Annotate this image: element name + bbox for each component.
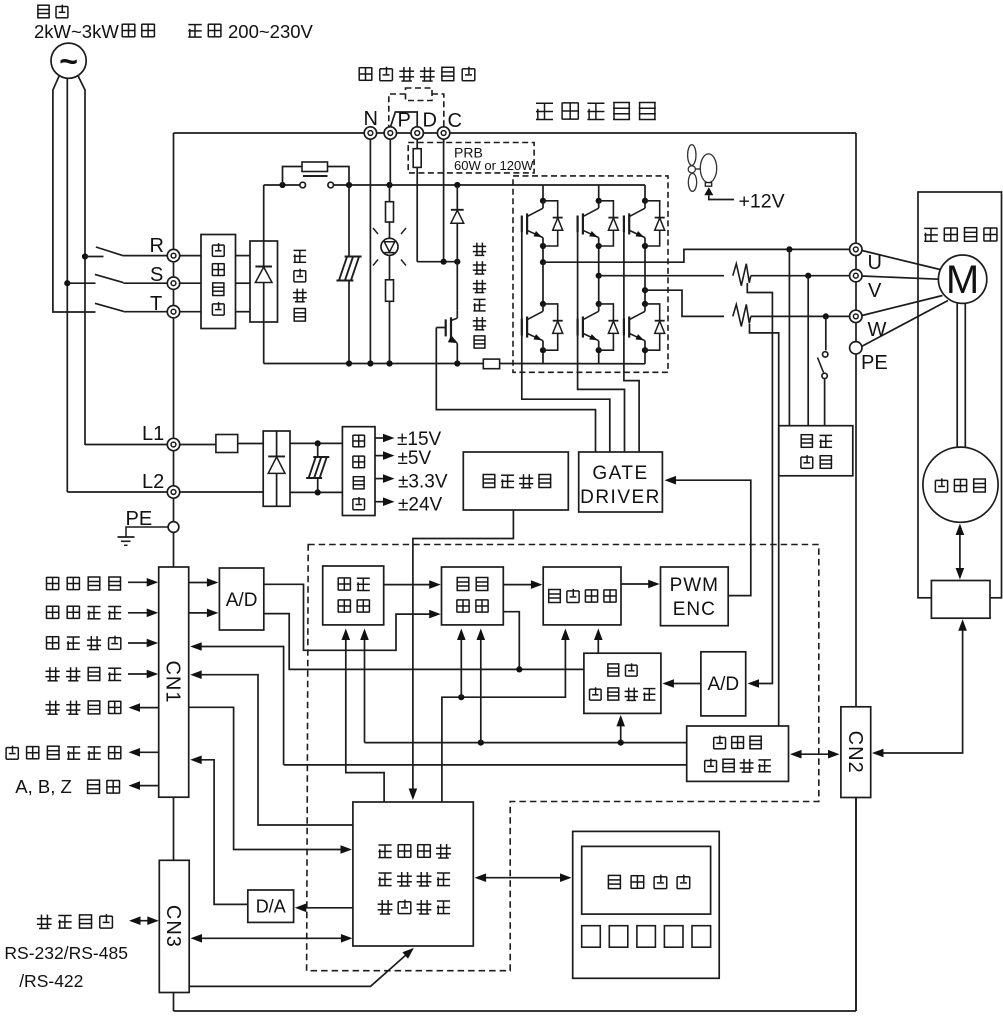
AC source G1	[51, 43, 86, 79]
label R	[150, 235, 164, 257]
servo drive enclosure box	[174, 133, 857, 1011]
gate driver block	[579, 452, 663, 512]
label 回生处理回路	[473, 243, 486, 349]
svg-text:R: R	[150, 235, 164, 257]
wire D-C junction link	[417, 259, 460, 265]
arrow interface processor to display	[475, 873, 572, 882]
wire V to dynamic brake	[807, 276, 809, 426]
label L1	[142, 423, 164, 445]
arrow +-3.3V	[375, 472, 448, 493]
control power supply 控制电源	[342, 427, 375, 516]
svg-text:+12V: +12V	[739, 191, 785, 213]
dynamic brake block 动态刹车	[779, 426, 853, 476]
IGBT leg V feeders	[596, 185, 602, 364]
arrow feedback to position control B	[360, 629, 369, 743]
wire V current-sense tap to A/D	[747, 283, 772, 688]
arrow current signal to current control	[594, 629, 603, 654]
arrow 外部扭矩 to CN1	[128, 609, 158, 618]
terminal U	[850, 243, 862, 255]
charge lamp LED	[373, 228, 406, 266]
label 串行通讯	[37, 914, 113, 928]
cooling fan icon	[688, 145, 717, 196]
arrow speed to current control	[503, 580, 542, 589]
label N	[364, 108, 378, 130]
shunt resistor on negative bus	[483, 359, 499, 369]
jumper link P-D	[391, 112, 418, 127]
wire R to phase-loss detector	[180, 255, 201, 257]
wire D/A to CN1	[190, 756, 248, 905]
regen diode	[451, 185, 464, 311]
wire regen gate to gate driver	[436, 328, 595, 453]
arrow 数字输入 to CN1	[128, 670, 158, 679]
terminal S	[167, 277, 179, 289]
D/A converter block	[248, 890, 294, 922]
terminal N	[364, 127, 376, 139]
switch SW-S	[64, 274, 167, 286]
wire gate V to gate driver	[578, 232, 625, 452]
label PE motor	[861, 352, 888, 374]
svg-text:60W or 120W: 60W or 120W	[454, 158, 534, 173]
wire phase3 to L1	[85, 444, 167, 446]
reactor III symbol control	[306, 443, 329, 492]
wire control rectifier outputs	[290, 440, 342, 495]
label P	[398, 110, 411, 132]
label three-phase 200~230V	[188, 21, 313, 42]
wires phase-loss detector to rectifier	[236, 256, 251, 312]
svg-text:CN1: CN1	[162, 660, 184, 703]
label PE	[126, 508, 153, 530]
arrow +-5V	[375, 448, 431, 469]
arrow feed to speed control B	[457, 629, 466, 698]
wire V to motor	[862, 276, 938, 279]
svg-text:GATE: GATE	[592, 463, 648, 484]
switch SW-T	[95, 303, 167, 311]
transistor Q6 lower W	[624, 304, 665, 350]
label 伺服电机	[924, 228, 997, 242]
label U	[868, 252, 882, 274]
wire L1 to fuse	[180, 444, 216, 446]
wire phase V output	[599, 264, 850, 286]
terminal P	[384, 127, 396, 139]
svg-text:T: T	[150, 293, 162, 315]
wire speed feedback line	[365, 740, 687, 746]
arrow current control to PWM	[621, 580, 660, 589]
wire T to phase-loss detector	[180, 311, 201, 313]
svg-text:~: ~	[59, 43, 78, 79]
wire fuse to control rectifier	[238, 443, 264, 445]
display key 5	[692, 926, 711, 948]
svg-text:ENC: ENC	[673, 599, 716, 620]
label L2	[142, 471, 164, 493]
label S	[150, 264, 163, 286]
resistor on D line	[413, 139, 421, 261]
wire A/D outB feed	[264, 614, 584, 670]
arrow CN1 to 模拟输入监控	[129, 748, 159, 757]
svg-text:±24V: ±24V	[398, 495, 443, 516]
operator display unit 操作显示	[573, 831, 720, 978]
label 模拟输入监控	[6, 746, 121, 760]
transistor Q1 upper U	[522, 201, 563, 246]
arrow 外部速度 to CN1	[128, 578, 158, 587]
arrow interface to D/A	[295, 904, 353, 913]
terminal PE	[168, 522, 179, 533]
servo interface processor block 伺服同步参数调整界面处理	[353, 802, 473, 946]
svg-text:A/D: A/D	[226, 590, 258, 611]
arrow +-15V	[375, 429, 442, 450]
label T	[150, 293, 162, 315]
wire PWM to gate driver	[665, 476, 751, 596]
wire gate W to gate driver	[624, 232, 639, 452]
wire L2 to control rectifier	[180, 491, 264, 493]
label 2kW~3kW models	[34, 21, 154, 42]
A/D converter block input	[219, 568, 263, 630]
wire CN1 to A/D row2	[189, 609, 219, 618]
servo motor box 伺服电机	[918, 192, 1002, 598]
label A,B,Z 输出	[15, 776, 119, 797]
wire phase W output	[645, 290, 850, 326]
dashed box external regen resistor option	[389, 88, 444, 143]
wire encoder interface to CN2	[872, 619, 967, 757]
phase-loss detection block 欠相侦测	[201, 235, 236, 329]
label +12V	[739, 191, 785, 213]
svg-text:A/D: A/D	[707, 674, 739, 695]
wire command feed to speed and current	[442, 629, 570, 802]
label RS-232/RS-485	[4, 943, 128, 963]
svg-text:CN3: CN3	[162, 905, 184, 948]
fuse F1	[216, 435, 238, 453]
connector CN3	[159, 860, 189, 992]
wire CN1 to A/D row1	[189, 578, 219, 587]
svg-text:A, B, Z: A, B, Z	[15, 776, 72, 797]
wire S to phase-loss detector	[180, 282, 201, 284]
terminal L2	[167, 486, 179, 498]
encoder signal processing block 编码器信号处理	[687, 726, 789, 781]
wire CN1 to interface processor	[189, 707, 352, 854]
label /RS-422	[19, 971, 83, 991]
wire phase 1 from source to T switch	[53, 76, 96, 312]
wire A/D outA to speed control	[264, 584, 441, 650]
svg-text:±15V: ±15V	[397, 429, 442, 450]
arrow CN3 to interface processor	[191, 934, 353, 943]
PWM ENC block	[661, 567, 729, 626]
wire CN3 diagonal to interface processor	[189, 948, 414, 987]
rectifier block 整流回路	[250, 241, 278, 322]
motor M1	[938, 255, 986, 303]
label 整流回路	[293, 250, 307, 321]
label 数字输出	[46, 701, 121, 715]
wire rectifier top to DC bus	[263, 185, 265, 241]
arrow position to speed control	[384, 580, 441, 589]
dashed box digital control section	[307, 545, 819, 971]
IGBT leg U feeders	[540, 185, 546, 364]
terminal D	[411, 127, 423, 139]
connector CN1	[159, 567, 189, 797]
arrow CN1 to ABZ	[129, 781, 159, 790]
wire W current-sense tap	[750, 324, 779, 726]
charge indicator chain resistor R-b	[386, 255, 394, 363]
A/D converter block current	[701, 652, 746, 716]
wire interface to position control A	[342, 629, 385, 802]
wire U to dynamic brake	[788, 249, 790, 425]
transistor Q5 lower V	[578, 304, 619, 350]
display key 3	[637, 926, 656, 948]
wire gate U to gate driver	[522, 232, 610, 452]
terminal V	[850, 270, 862, 282]
label C	[448, 110, 462, 132]
wire phase2 to L2	[67, 491, 167, 493]
title 伺服驱动器	[536, 103, 656, 120]
svg-text:L2: L2	[142, 471, 164, 493]
svg-text:DRIVER: DRIVER	[580, 487, 661, 508]
transistor Q2 upper V	[578, 201, 619, 246]
wire P line to DC bus	[389, 139, 391, 185]
wire phase 2 from source to S junction and L2	[66, 78, 68, 492]
transistor Q4 lower U	[522, 304, 563, 350]
label 位置脉冲	[47, 636, 121, 650]
wire interface to CN1 row	[190, 670, 353, 825]
svg-text:C: C	[448, 110, 462, 132]
arrow feedback to speed control	[477, 629, 486, 743]
svg-text:D/A: D/A	[256, 897, 286, 917]
transistor Q3 upper W	[624, 201, 665, 246]
label 外部扭矩	[47, 606, 122, 619]
wire N line to negative bus	[369, 139, 371, 363]
svg-text:PWM: PWM	[670, 575, 719, 596]
dashed box internal regen resistor PRB	[408, 143, 534, 174]
arrow +-24V	[375, 495, 443, 516]
wire phase U output	[543, 246, 850, 262]
wire U to motor	[862, 251, 940, 270]
svg-text:2kW~3kW: 2kW~3kW	[34, 21, 119, 42]
svg-text:200~230V: 200~230V	[228, 21, 314, 42]
connector CN2	[841, 707, 871, 798]
terminal C	[437, 127, 449, 139]
label 数字输入	[46, 667, 122, 681]
wire W to motor	[862, 296, 943, 316]
wire fan +12V supply	[709, 195, 734, 199]
position control block 位置控制	[323, 566, 384, 625]
display key 4	[664, 926, 683, 948]
wire speed control aux output	[503, 612, 522, 673]
arrow CN1 to 数字输出	[129, 703, 159, 712]
label D	[423, 110, 437, 132]
arrow encoder to interface	[956, 524, 965, 580]
arrow 位置脉冲 to CN1	[128, 639, 158, 648]
svg-text:V: V	[868, 280, 882, 302]
svg-text:RS-232/RS-485: RS-232/RS-485	[4, 943, 128, 963]
svg-text:±3.3V: ±3.3V	[398, 472, 448, 493]
terminal W	[850, 310, 862, 322]
protection block 保护回路	[463, 452, 568, 510]
IGBT leg W feeders	[642, 185, 648, 364]
wire position feedback to CN1	[190, 642, 687, 765]
dashed box IGBT inverter bridge	[513, 176, 668, 372]
terminal L1	[167, 438, 179, 450]
svg-text:P: P	[398, 110, 411, 132]
label 外部速度	[47, 577, 122, 590]
wire phase 3 from source to R junction and L1	[78, 76, 85, 445]
control rectifier block	[263, 431, 290, 506]
terminal R	[167, 249, 179, 261]
encoder interface connector	[931, 581, 990, 619]
arrow A/D to current signal processing	[662, 679, 701, 688]
wire protection to interface processor	[409, 510, 514, 800]
terminal T	[167, 306, 179, 318]
current control block 电流控制	[543, 567, 621, 625]
wire DC positive bus	[264, 182, 645, 188]
wire DC negative bus	[264, 322, 646, 367]
svg-text:M: M	[946, 258, 979, 302]
relay contact MC	[300, 176, 334, 188]
label 外接回生电阻	[359, 67, 475, 81]
display key 2	[609, 926, 628, 948]
regen transistor Q7	[446, 311, 458, 364]
reactor III symbol main	[336, 185, 361, 364]
label power source 电源	[37, 5, 68, 18]
brake contact on W	[818, 316, 828, 425]
svg-text:/RS-422: /RS-422	[19, 971, 83, 991]
arrow serial comm to CN3	[129, 916, 159, 925]
encoder 编码器	[923, 447, 998, 522]
arrow feedback to current signal processing	[616, 715, 625, 743]
svg-text:±5V: ±5V	[398, 448, 432, 469]
ground symbol	[118, 527, 168, 545]
svg-text:L1: L1	[142, 423, 164, 445]
speed control block 速度控制	[442, 567, 504, 625]
label W	[868, 319, 887, 341]
arrow encoder processing to CN2	[790, 750, 840, 759]
display key 1	[582, 926, 601, 948]
wire CN2 to bottom edge	[855, 798, 857, 1012]
svg-text:CN2: CN2	[844, 731, 866, 774]
wire PE to motor	[862, 301, 949, 347]
charge indicator chain resistor R-a	[386, 185, 394, 238]
svg-text:D: D	[423, 110, 437, 132]
current signal processing block 电流信号处理	[584, 653, 661, 713]
switch SW-R	[82, 247, 167, 260]
soft-charge bypass resistor	[283, 162, 350, 185]
wire C line	[443, 139, 445, 261]
terminal PE motor	[850, 342, 862, 354]
svg-text:S: S	[150, 264, 163, 286]
label V	[868, 280, 882, 302]
svg-text:PE: PE	[861, 352, 888, 374]
motor shaft link	[957, 303, 965, 447]
